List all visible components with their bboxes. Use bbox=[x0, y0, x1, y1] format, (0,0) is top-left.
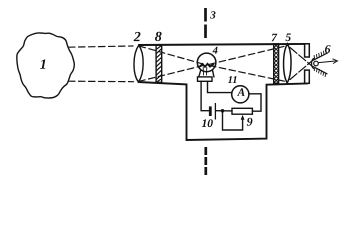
eye 6: upper eyelid bbox=[313, 53, 328, 60]
lamp 4: filament (thick zigzag) bbox=[200, 64, 214, 67]
lens 5 (eyepiece condenser, vesica shape) bbox=[284, 44, 292, 83]
wire (lamp left lead down to battery) bbox=[201, 81, 209, 110]
eye 6: lower eyelid bbox=[313, 67, 327, 74]
axis mark 3 (top dashed tick) bbox=[204, 8, 207, 39]
svg-text:1: 1 bbox=[40, 58, 47, 73]
filter 7 (cross-hatched plate) bbox=[274, 44, 279, 83]
wire (lamp right lead to ammeter) bbox=[208, 81, 233, 92]
svg-text:4: 4 bbox=[212, 46, 218, 57]
axis mark bottom dashed tick bbox=[204, 147, 207, 175]
svg-text:10: 10 bbox=[202, 118, 214, 130]
enclosure bottom wall with circuit compartment (left run, down, across, up, right run) bbox=[138, 82, 307, 140]
svg-text:9: 9 bbox=[247, 115, 253, 129]
ammeter 11: body circle bbox=[232, 86, 249, 103]
lamp 4: globe bbox=[197, 53, 216, 72]
svg-text:3: 3 bbox=[209, 9, 216, 21]
eye 6: axis stroke bbox=[319, 61, 336, 63]
ray (filament diverging to lens 5 top, dashed) bbox=[210, 46, 288, 65]
eyepiece aperture bottom bar bbox=[305, 70, 310, 83]
svg-text:2: 2 bbox=[133, 30, 141, 45]
enclosure top wall bbox=[139, 44, 308, 45]
rheostat 9 (resistor box) bbox=[232, 108, 252, 114]
ray lower (object to lens 2, dashed) bbox=[69, 80, 134, 83]
eyepiece aperture top bar bbox=[305, 44, 310, 57]
ray (lens 2 bottom converging to filament, dashed) bbox=[139, 65, 204, 81]
eye 6: upper lashes bbox=[314, 50, 326, 59]
wire (tap: junction down, across, to wiper arrow) bbox=[223, 111, 243, 130]
eye 6: lower lashes bbox=[314, 67, 326, 77]
lens 2 (objective, vesica shape) bbox=[134, 45, 143, 82]
ray upper (object to lens 2, dashed) bbox=[69, 46, 134, 47]
wire (ammeter to rheostat right end) bbox=[249, 94, 261, 111]
filter 8 (hatched plate) bbox=[156, 45, 162, 82]
svg-text:6: 6 bbox=[324, 42, 330, 56]
eye 6: cornea crescent bbox=[312, 58, 314, 68]
svg-text:5: 5 bbox=[285, 32, 291, 44]
lamp 4: inner stem wires bbox=[203, 67, 207, 75]
ray (lens 5 bottom converging to eye, dashed) bbox=[290, 61, 313, 80]
wire (battery to rheostat) bbox=[216, 110, 232, 112]
lamp 4: base (socket) bbox=[198, 77, 213, 81]
lamp 4: neck bbox=[199, 71, 214, 78]
svg-text:7: 7 bbox=[271, 32, 278, 44]
svg-text:8: 8 bbox=[155, 30, 162, 45]
ray (lens 5 top converging to eye, dashed) bbox=[290, 48, 313, 67]
rheostat wiper arrowhead bbox=[241, 115, 245, 120]
ray (filament diverging to lens 5 bottom, dashed) bbox=[210, 66, 288, 82]
svg-text:11: 11 bbox=[228, 75, 238, 86]
eye 6: axis arrowhead bbox=[333, 59, 338, 64]
svg-text:A: A bbox=[236, 87, 245, 99]
ray (lens 2 top converging to filament, dashed) bbox=[139, 46, 204, 64]
junction node dot bbox=[221, 109, 225, 113]
battery 10: long thin plate bbox=[214, 103, 216, 120]
eye 6: pupil bbox=[314, 61, 319, 66]
battery 10: short thick plate bbox=[209, 106, 212, 116]
object 1 (irregular light-source blob) bbox=[17, 33, 74, 98]
